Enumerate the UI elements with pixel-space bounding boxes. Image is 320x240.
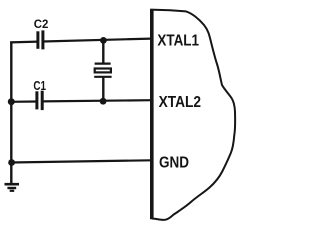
- svg-text:C2: C2: [34, 17, 49, 31]
- svg-text:C1: C1: [33, 78, 46, 93]
- svg-text:XTAL1: XTAL1: [157, 33, 199, 50]
- svg-text:GND: GND: [159, 155, 189, 172]
- svg-text:XTAL2: XTAL2: [159, 94, 202, 111]
